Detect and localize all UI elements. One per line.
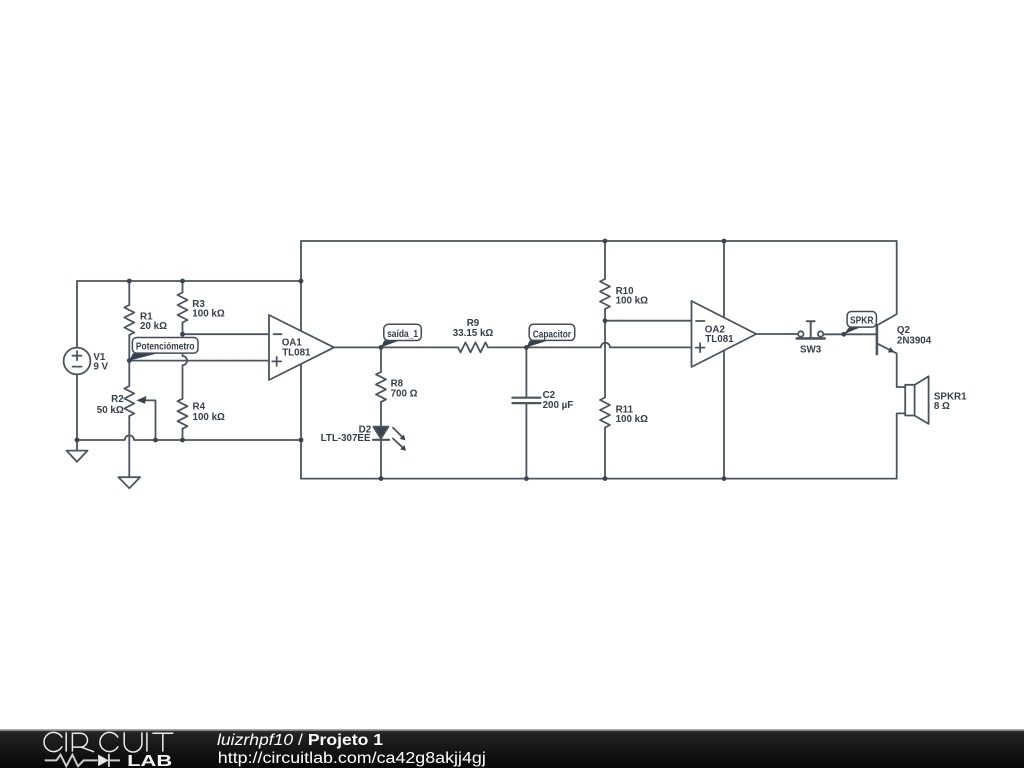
wire R4 bottom lead bbox=[182, 429, 184, 440]
wire D2 bottom lead bbox=[380, 440, 382, 479]
node saida_1 bbox=[379, 345, 384, 350]
junction supply corner bbox=[299, 279, 304, 284]
resistor R9 bbox=[458, 342, 488, 352]
resistor R11 bbox=[600, 398, 610, 428]
switch SW3 bbox=[798, 331, 803, 336]
wire R11 bottom lead bbox=[604, 428, 606, 479]
node Capacitor bbox=[524, 345, 529, 350]
svg-text:700 Ω: 700 Ω bbox=[391, 389, 418, 400]
junction R4 bottom bbox=[180, 438, 185, 443]
svg-text:100 kΩ: 100 kΩ bbox=[616, 414, 649, 425]
wire ground rail with hop over R2 leg bbox=[77, 435, 301, 440]
junction R1 top bbox=[127, 279, 132, 284]
svg-text:TL081: TL081 bbox=[282, 347, 311, 358]
wire switch to Q2 base bbox=[823, 333, 877, 335]
svg-text:100 kΩ: 100 kΩ bbox=[616, 296, 649, 307]
svg-text:SPKR: SPKR bbox=[850, 316, 874, 327]
wire OA2 inverting input run bbox=[605, 320, 692, 322]
junction wiper rail bbox=[153, 438, 158, 443]
node Potenciómetro flag bbox=[129, 338, 198, 361]
resistor R8 bbox=[376, 372, 386, 402]
svg-text:Potenciómetro: Potenciómetro bbox=[136, 342, 195, 353]
ground GND2 bbox=[119, 477, 141, 488]
resistor R3 bbox=[178, 293, 188, 323]
wire left vertical of loop bbox=[300, 241, 302, 479]
node Capacitor flag bbox=[526, 324, 574, 347]
wire R10 to R11 link bbox=[604, 309, 606, 398]
wire R8 to LED bbox=[380, 402, 382, 427]
svg-text:50 kΩ: 50 kΩ bbox=[97, 405, 124, 416]
ground GND1 bbox=[67, 440, 88, 462]
svg-text:200 µF: 200 µF bbox=[543, 400, 574, 411]
logo resistor-diode graphic bbox=[45, 754, 120, 767]
wiper arrow of R2 bbox=[141, 400, 156, 440]
junction R11 bottom rail bbox=[603, 476, 608, 481]
LED D2 bbox=[373, 427, 388, 439]
capacitor C2 bbox=[512, 398, 540, 403]
wire V1 bottom lead bbox=[76, 374, 78, 440]
op-amp OA2 bbox=[692, 301, 757, 367]
wire R3-R4 link with hop over plus wire bbox=[183, 334, 188, 399]
svg-text:33.15 kΩ: 33.15 kΩ bbox=[453, 328, 494, 339]
wire capacitor node to OA2 plus with hop over R10R11 column bbox=[526, 343, 691, 348]
junction R3 top bbox=[180, 279, 185, 284]
svg-text:9 V: 9 V bbox=[93, 361, 108, 372]
wire bottom rail of loop bbox=[301, 478, 897, 480]
svg-text:R4: R4 bbox=[193, 402, 206, 413]
voltage source V1 bbox=[64, 348, 91, 375]
junction C2 bottom rail bbox=[524, 476, 529, 481]
footer top highlight bbox=[0, 729, 1024, 731]
svg-text:R2: R2 bbox=[111, 394, 124, 405]
wire C2 top lead bbox=[525, 347, 527, 397]
svg-text:luizrhpf10 / Projeto 1: luizrhpf10 / Projeto 1 bbox=[217, 732, 383, 749]
svg-text:20 kΩ: 20 kΩ bbox=[140, 321, 167, 332]
junction D2 bottom rail bbox=[379, 476, 384, 481]
resistor R1 bbox=[124, 305, 134, 335]
wire inverting input run y334.2 bbox=[183, 333, 270, 335]
wire noninverting input run y360.6 bbox=[129, 360, 269, 362]
wire R3 bottom lead bbox=[182, 323, 184, 335]
junction V1 ground bbox=[75, 438, 80, 443]
node dots bbox=[75, 239, 847, 481]
svg-text:100 kΩ: 100 kΩ bbox=[193, 412, 226, 423]
svg-text:TL081: TL081 bbox=[705, 334, 734, 345]
wire R8 top lead bbox=[380, 347, 382, 372]
wire R3 top lead bbox=[182, 281, 184, 293]
node SPKR flag bbox=[844, 312, 877, 335]
wire R9 to capacitor node bbox=[488, 346, 526, 348]
speaker SPKR1 bbox=[897, 386, 906, 388]
svg-text:saída_1: saída_1 bbox=[387, 329, 418, 340]
wire R1 top lead bbox=[128, 281, 130, 305]
wire R10 column top lead bbox=[604, 241, 606, 279]
wire R1 bottom lead to wiper node bbox=[128, 335, 130, 361]
wire OA1 output bbox=[334, 346, 458, 348]
junction OA2 column bottom bbox=[722, 476, 727, 481]
junction rail to loop bbox=[299, 438, 304, 443]
wire V1 top lead bbox=[76, 281, 78, 348]
logo CIRCUIT wordmark bbox=[44, 732, 173, 752]
potentiometer R2 bbox=[124, 361, 134, 416]
op-amp OA1 bbox=[269, 315, 334, 380]
svg-text:LTL-307EE: LTL-307EE bbox=[321, 433, 371, 444]
resistor R4 bbox=[178, 399, 188, 429]
svg-text:Capacitor: Capacitor bbox=[533, 329, 571, 340]
junction OA2 column top bbox=[722, 239, 727, 244]
wire OA2 bias column x724 bbox=[723, 241, 725, 479]
wire OA2 output to switch bbox=[756, 333, 798, 335]
wire V+ feed y281 bbox=[77, 280, 301, 282]
resistor R10 bbox=[600, 279, 610, 309]
junction R10 top rail bbox=[603, 239, 608, 244]
wire top rail of loop bbox=[301, 240, 897, 242]
junction R3 bottom bbox=[180, 332, 185, 337]
svg-text:http://circuitlab.com/ca42g8ak: http://circuitlab.com/ca42g8akjj4gj bbox=[218, 750, 486, 767]
wire C2 bottom lead bbox=[525, 403, 527, 478]
svg-text:2N3904: 2N3904 bbox=[897, 336, 932, 347]
svg-text:LAB: LAB bbox=[127, 753, 172, 768]
junction R10 bottom bbox=[603, 318, 608, 323]
svg-text:100 kΩ: 100 kΩ bbox=[192, 309, 225, 320]
junction wiper node bbox=[127, 358, 132, 363]
node SPKR bbox=[841, 332, 846, 337]
node saida_1 flag bbox=[381, 324, 421, 347]
svg-text:SW3: SW3 bbox=[800, 344, 822, 355]
transistor Q2 bbox=[876, 325, 879, 354]
svg-text:8 Ω: 8 Ω bbox=[934, 401, 950, 412]
wire R2 lower leg crossing rail to ground bbox=[128, 416, 130, 477]
